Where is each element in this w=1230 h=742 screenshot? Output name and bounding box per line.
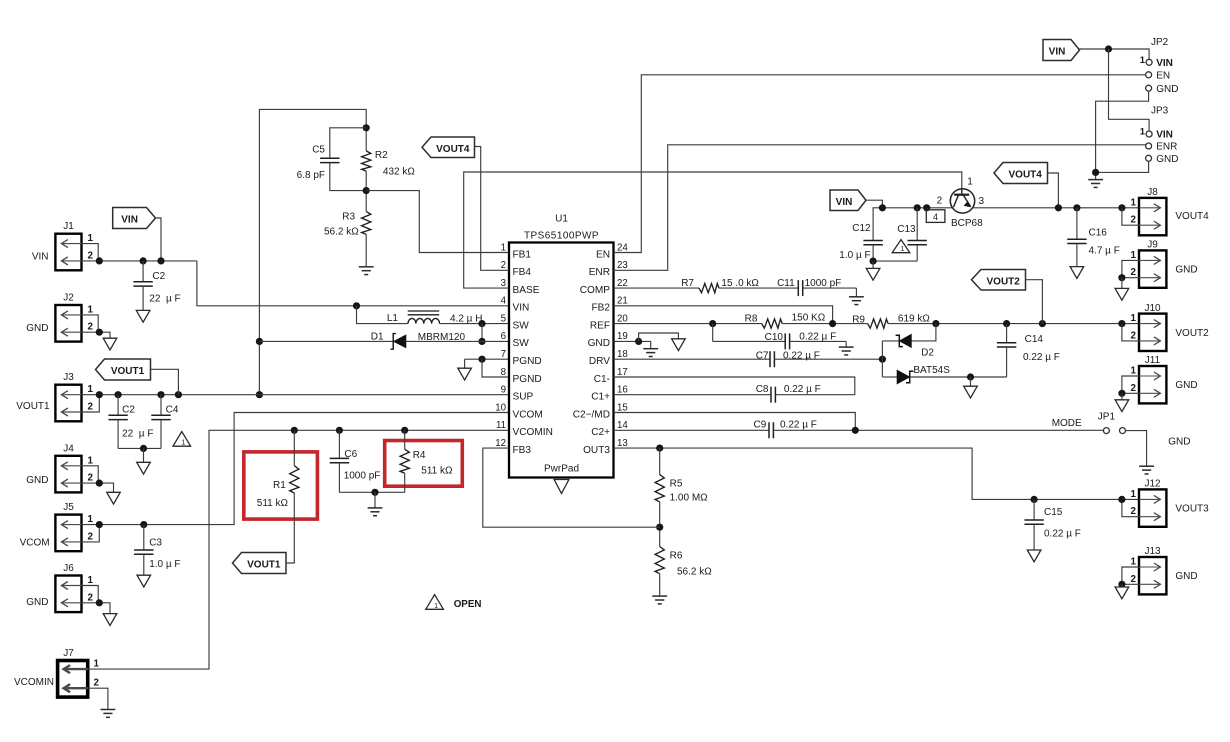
- svg-text:432 kΩ: 432 kΩ: [383, 166, 415, 177]
- svg-text:R3: R3: [342, 212, 355, 223]
- svg-text:VOUT4: VOUT4: [1175, 211, 1209, 222]
- svg-text:1: 1: [181, 440, 185, 447]
- wire C13 top lead: [916, 208, 918, 241]
- svg-text:16: 16: [617, 385, 628, 396]
- svg-text:PGND: PGND: [513, 356, 542, 367]
- junction J11 pins: [1118, 390, 1125, 397]
- wire J9 ground stub: [1121, 278, 1123, 289]
- junction C2 tap: [140, 257, 147, 264]
- junction R4 top: [401, 427, 408, 434]
- wire SUP line J3 to IC pin9: [82, 394, 510, 396]
- junction riser at D1: [256, 338, 263, 345]
- wire C2-/MD pin15: [614, 413, 856, 431]
- svg-text:VIN: VIN: [1049, 47, 1066, 58]
- svg-text:C4: C4: [166, 405, 179, 416]
- svg-text:56.2 kΩ: 56.2 kΩ: [324, 227, 359, 238]
- svg-text:C2+: C2+: [591, 427, 610, 438]
- net tag VOUT4 right: [994, 163, 1048, 184]
- ground D2 C14: [964, 386, 978, 398]
- svg-text:PGND: PGND: [513, 374, 542, 385]
- diode D2 lower: [897, 370, 909, 383]
- wire L1 to IC pin5: [440, 323, 510, 325]
- svg-text:C14: C14: [1025, 334, 1044, 345]
- junction C13 top: [914, 204, 921, 211]
- svg-text:EN: EN: [1156, 71, 1170, 82]
- svg-text:8: 8: [501, 367, 506, 378]
- svg-text:1000 pF: 1000 pF: [805, 278, 842, 289]
- svg-text:0.22 µ F: 0.22 µ F: [799, 332, 836, 343]
- svg-text:0.22 µ F: 0.22 µ F: [780, 420, 817, 431]
- wire C5 bottom to node: [330, 163, 366, 191]
- svg-text:1: 1: [967, 176, 973, 187]
- wire R5 top lead: [659, 448, 661, 475]
- svg-text:6.8 pF: 6.8 pF: [297, 170, 325, 181]
- svg-text:U1: U1: [555, 214, 568, 225]
- wire VIN tag to JP2 pin1: [1080, 49, 1150, 59]
- svg-text:23: 23: [617, 260, 628, 271]
- junction C3 tap: [140, 521, 147, 528]
- junction J9 pins: [1118, 274, 1125, 281]
- junction cap ground: [140, 445, 147, 452]
- svg-text:JP3: JP3: [1151, 106, 1169, 117]
- svg-text:J11: J11: [1145, 355, 1161, 366]
- junction GND pin19: [635, 338, 642, 345]
- wire VIN tag to C12 node: [866, 200, 882, 208]
- wire JP3 GND down: [1096, 161, 1149, 172]
- wire J11 pin1 bridge: [1122, 376, 1139, 393]
- net tag VIN at Q1: [830, 190, 866, 211]
- wire C11 to ground: [855, 288, 857, 297]
- junction R5 R6 FB3: [656, 524, 663, 531]
- transistor Q1 pin4 box: [926, 208, 928, 210]
- inductor L1 core bars: [408, 310, 440, 312]
- svg-text:7: 7: [501, 349, 506, 360]
- svg-text:1.00 MΩ: 1.00 MΩ: [670, 492, 709, 503]
- svg-text:2: 2: [94, 678, 100, 689]
- svg-text:D2: D2: [921, 347, 934, 358]
- svg-text:FB2: FB2: [591, 303, 610, 314]
- capacitor C12: [872, 240, 874, 242]
- svg-text:150 KΩ: 150 KΩ: [792, 313, 826, 324]
- wire FB3 pin12 to divider: [483, 448, 660, 527]
- warning triangle 1 near C4: [173, 432, 191, 447]
- svg-text:12: 12: [495, 438, 506, 449]
- svg-text:C8: C8: [756, 384, 769, 395]
- ground C11: [849, 296, 864, 298]
- wire J13 ground stub: [1121, 584, 1123, 587]
- ground C12 C13: [866, 268, 880, 280]
- wire J6 pin2 to ground: [82, 603, 111, 614]
- wire VCOM line to J5: [82, 413, 510, 525]
- svg-text:GND: GND: [1175, 265, 1197, 276]
- junction C12 ground: [870, 258, 877, 265]
- net tag VOUT1 top: [96, 359, 151, 380]
- svg-text:VOUT3: VOUT3: [1175, 504, 1209, 515]
- svg-text:R2: R2: [375, 150, 388, 161]
- transistor Q1 BCP68: [950, 189, 974, 213]
- svg-text:J12: J12: [1144, 479, 1161, 490]
- note OPEN triangle: [426, 595, 444, 610]
- svg-text:4: 4: [501, 296, 507, 307]
- svg-text:0.22 µ F: 0.22 µ F: [784, 384, 821, 395]
- wire D1 anode to IC pin6: [406, 340, 509, 342]
- junction C4 top: [157, 391, 164, 398]
- svg-text:J6: J6: [63, 563, 74, 574]
- red highlight box R1: [244, 452, 318, 519]
- wire J3 pin2 to pin1: [82, 395, 100, 412]
- wire J12 pin2 bridge: [1122, 499, 1139, 516]
- svg-text:1000 pF: 1000 pF: [344, 470, 381, 481]
- wire D2 common vertical: [881, 341, 883, 377]
- wire J11 ground stub: [1121, 393, 1123, 400]
- svg-text:0.22 µ F: 0.22 µ F: [1023, 352, 1060, 363]
- capacitor C6: [338, 430, 340, 458]
- ground C3: [137, 575, 151, 587]
- wire R2 to node: [365, 171, 367, 211]
- junction REF C10 tap: [709, 320, 716, 327]
- svg-text:1: 1: [1140, 55, 1146, 66]
- svg-text:C2: C2: [152, 271, 165, 282]
- ground J2: [103, 338, 117, 350]
- capacitor C9: [614, 429, 770, 431]
- wire C12 C13 bottoms: [873, 260, 917, 262]
- svg-text:2: 2: [501, 260, 506, 271]
- junction J10 pins: [1118, 320, 1125, 327]
- svg-text:C1-: C1-: [594, 374, 610, 385]
- resistor R2: [362, 151, 371, 171]
- svg-text:17: 17: [617, 367, 628, 378]
- wire D2 lower anode: [882, 376, 897, 378]
- svg-text:2: 2: [1131, 383, 1137, 394]
- svg-text:FB4: FB4: [513, 267, 532, 278]
- wire D1 cathode to riser: [259, 340, 393, 342]
- resistor R5: [655, 475, 664, 502]
- svg-text:56.2 kΩ: 56.2 kΩ: [677, 567, 712, 578]
- connector J3: [55, 385, 81, 422]
- svg-text:C12: C12: [852, 223, 871, 234]
- warning triangle 1 at C13: [892, 240, 910, 253]
- svg-text:GND: GND: [588, 338, 610, 349]
- wire J6 pin1 to pin2: [82, 586, 99, 603]
- wire R5 to R6: [659, 502, 661, 547]
- connector J8: [1139, 198, 1166, 235]
- connector J4: [55, 456, 81, 493]
- svg-text:J7: J7: [63, 648, 74, 659]
- capacitor C10: [713, 340, 786, 342]
- capacitor C8: [614, 394, 772, 396]
- junction JP grounds: [1092, 169, 1099, 176]
- svg-text:VIN: VIN: [1156, 58, 1173, 69]
- wire GND pin19: [614, 341, 651, 348]
- wire J4 pin1 to pin2: [82, 466, 99, 483]
- svg-text:VCOM: VCOM: [513, 409, 543, 420]
- resistor R9: [868, 319, 889, 328]
- wire VOUT4 tag stub: [1048, 173, 1059, 208]
- wire D2 ground stub: [970, 377, 972, 386]
- svg-text:1: 1: [88, 455, 94, 466]
- svg-text:ENR: ENR: [1156, 142, 1177, 153]
- svg-text:22: 22: [617, 278, 628, 289]
- IC U1 TPS65100PWP: [509, 243, 614, 478]
- svg-text:511 kΩ: 511 kΩ: [421, 466, 453, 477]
- ground R6: [652, 595, 667, 597]
- ground J11: [1115, 400, 1129, 412]
- resistor R3: [362, 211, 371, 234]
- junction SW pin5: [478, 320, 485, 327]
- svg-text:DRV: DRV: [589, 356, 610, 367]
- junction J12 pins: [1118, 496, 1125, 503]
- net tag VIN top right: [1043, 40, 1080, 61]
- svg-text:C7: C7: [756, 351, 769, 362]
- svg-text:2: 2: [1131, 574, 1137, 585]
- svg-text:VIN: VIN: [121, 215, 138, 226]
- wire D2 upper anode: [911, 324, 936, 341]
- svg-text:2: 2: [1131, 267, 1137, 278]
- connector J2: [55, 305, 81, 342]
- svg-text:1: 1: [88, 384, 94, 395]
- svg-text:C15: C15: [1044, 507, 1063, 518]
- svg-text:VOUT1: VOUT1: [111, 366, 145, 377]
- ground GND pin19 triangle: [672, 339, 686, 351]
- svg-text:GND: GND: [1156, 84, 1178, 95]
- diode D1 MBRM120: [394, 335, 406, 347]
- svg-text:C10: C10: [765, 332, 784, 343]
- svg-text:MODE: MODE: [1052, 418, 1082, 429]
- junction C6 ground tap: [371, 489, 378, 496]
- svg-text:18: 18: [617, 349, 628, 360]
- wire C2b C4 bottoms: [118, 447, 161, 449]
- svg-text:1: 1: [1131, 366, 1137, 377]
- svg-text:1: 1: [1131, 489, 1137, 500]
- wire C1- pin17: [614, 377, 855, 395]
- svg-text:J1: J1: [63, 221, 74, 232]
- capacitor C5: [329, 157, 331, 159]
- connector J5: [55, 515, 81, 552]
- svg-text:VCOMIN: VCOMIN: [14, 677, 54, 688]
- wire J1 pin1 to pin2: [82, 244, 99, 261]
- svg-text:BAT54S: BAT54S: [913, 365, 950, 376]
- wire VOUT1 vertical riser: [259, 109, 366, 394]
- junction J2 pins: [96, 329, 103, 336]
- wire VIN to IC pin4: [197, 261, 509, 306]
- svg-text:VCOMIN: VCOMIN: [513, 427, 553, 438]
- wire J8 pin2 bridge: [1122, 208, 1139, 225]
- svg-text:J2: J2: [63, 293, 74, 304]
- header JP2 pin VIN: [1146, 59, 1152, 65]
- svg-text:ENR: ENR: [589, 267, 610, 278]
- capacitor C15: [1033, 499, 1035, 520]
- wire OUT3 pin13 to J12: [614, 448, 1140, 499]
- ground U1 PwrPad: [554, 480, 569, 494]
- wire VOUT1 tag stub: [151, 369, 179, 394]
- svg-text:10: 10: [495, 402, 506, 413]
- svg-text:5: 5: [501, 313, 506, 324]
- net tag VOUT4 left: [422, 137, 475, 158]
- wire VIN tag stub: [156, 218, 162, 261]
- capacitor C16: [1076, 208, 1078, 239]
- svg-text:OPEN: OPEN: [454, 599, 482, 610]
- svg-text:VIN: VIN: [32, 251, 49, 262]
- ground PGND: [458, 368, 472, 380]
- svg-text:2: 2: [1131, 506, 1137, 517]
- svg-text:GND: GND: [26, 597, 48, 608]
- svg-text:VIN: VIN: [1156, 130, 1173, 141]
- svg-text:1: 1: [94, 659, 100, 670]
- capacitor C2 (VOUT1): [117, 395, 119, 416]
- svg-text:GND: GND: [1175, 571, 1197, 582]
- ground C15: [1027, 550, 1041, 562]
- svg-text:EN: EN: [596, 249, 610, 260]
- svg-text:22 µ F: 22 µ F: [122, 428, 153, 439]
- header JP2 pin GND: [1146, 85, 1152, 91]
- wire C6 bottom to R4 bottom: [339, 491, 404, 493]
- svg-text:C16: C16: [1089, 227, 1108, 238]
- svg-text:1: 1: [88, 575, 94, 586]
- svg-text:2: 2: [88, 250, 94, 261]
- svg-text:GND: GND: [1175, 380, 1197, 391]
- svg-text:1: 1: [434, 603, 438, 610]
- ground JP1: [1139, 465, 1154, 467]
- svg-text:TPS65100PWP: TPS65100PWP: [524, 231, 599, 242]
- svg-text:JP1: JP1: [1098, 412, 1116, 423]
- svg-text:MBRM120: MBRM120: [418, 332, 466, 343]
- svg-text:2: 2: [88, 322, 94, 333]
- junction VOUT1 tag tap: [175, 391, 182, 398]
- resistor R7: [699, 284, 719, 293]
- svg-text:C2: C2: [122, 405, 135, 416]
- svg-text:2: 2: [88, 531, 94, 542]
- wire ENR pin23 to JP3: [614, 145, 1146, 270]
- svg-text:0.22 µ F: 0.22 µ F: [783, 351, 820, 362]
- svg-text:JP2: JP2: [1151, 37, 1169, 48]
- header JP3 pin GND: [1146, 155, 1152, 161]
- wire VOUT2 tag stub: [1026, 280, 1043, 324]
- junction VIN branch: [1105, 45, 1112, 52]
- svg-text:COMP: COMP: [580, 285, 611, 296]
- wire R1 bottom to VOUT1 tag: [286, 493, 294, 563]
- svg-text:J5: J5: [63, 502, 74, 513]
- junction C9 MODE: [852, 427, 859, 434]
- jumper JP1 pin right: [1120, 428, 1126, 434]
- diode D2 upper: [900, 335, 912, 348]
- wire R1 top lead: [293, 430, 295, 465]
- svg-text:R8: R8: [745, 313, 758, 324]
- svg-text:J4: J4: [63, 443, 74, 454]
- svg-text:FB3: FB3: [513, 445, 532, 456]
- svg-text:4.7 µ F: 4.7 µ F: [1089, 246, 1120, 257]
- junction J3 pins: [96, 391, 103, 398]
- svg-text:13: 13: [617, 438, 628, 449]
- wire cap ground stub: [143, 448, 145, 462]
- net tag VIN at J1: [113, 208, 156, 229]
- wire JP1 to ground: [1126, 431, 1147, 467]
- svg-text:C6: C6: [344, 449, 357, 460]
- resistor R1: [290, 466, 299, 493]
- svg-text:1: 1: [1131, 250, 1137, 261]
- svg-text:2: 2: [1131, 215, 1137, 226]
- header JP2 pin EN: [1146, 72, 1152, 78]
- svg-text:J3: J3: [63, 372, 74, 383]
- ground JP2 JP3: [1088, 179, 1103, 181]
- svg-text:C2−/MD: C2−/MD: [573, 409, 610, 420]
- ground C2: [136, 310, 150, 322]
- junction C16 top: [1073, 204, 1080, 211]
- svg-text:4: 4: [933, 212, 938, 222]
- junction J8 pins: [1118, 204, 1125, 211]
- ground C10: [839, 346, 854, 348]
- wire D2 upper cathode: [882, 340, 899, 342]
- svg-text:GND: GND: [26, 475, 48, 486]
- junction VIN into rail: [879, 204, 886, 211]
- capacitor C14: [1006, 324, 1008, 343]
- connector J1: [55, 234, 81, 271]
- ground C16: [1070, 267, 1084, 279]
- svg-text:22 µ F: 22 µ F: [149, 293, 180, 304]
- svg-text:GND: GND: [26, 323, 48, 334]
- svg-text:24: 24: [617, 242, 628, 253]
- svg-text:PwrPad: PwrPad: [544, 464, 579, 475]
- svg-text:J10: J10: [1144, 303, 1161, 314]
- svg-text:C13: C13: [897, 224, 916, 235]
- inductor L1: [408, 318, 440, 323]
- wire VCOMIN line to J7: [88, 430, 509, 669]
- svg-text:11: 11: [496, 420, 506, 431]
- svg-text:1: 1: [88, 304, 94, 315]
- svg-text:GND: GND: [1156, 154, 1178, 165]
- svg-text:20: 20: [617, 313, 628, 324]
- wire REF pin20 to R8: [614, 323, 762, 325]
- wire C6 ground stub: [374, 492, 376, 508]
- capacitor C4: [160, 395, 162, 416]
- wire Q1 emitter to J8: [973, 207, 1139, 209]
- svg-text:2: 2: [88, 592, 94, 603]
- junction J4 pins: [96, 480, 103, 487]
- svg-text:2: 2: [88, 402, 94, 413]
- wire J2 pin1 to pin2: [82, 315, 99, 332]
- jumper JP1 pin left: [1103, 428, 1109, 434]
- junction R5 top: [656, 445, 663, 452]
- junction pin4 box tap: [923, 204, 930, 211]
- svg-text:C5: C5: [312, 144, 325, 155]
- svg-text:VOUT1: VOUT1: [16, 401, 50, 412]
- junction DRV D2: [879, 356, 886, 363]
- svg-text:VOUT2: VOUT2: [1175, 328, 1209, 339]
- svg-text:VOUT1: VOUT1: [247, 560, 281, 571]
- svg-text:1: 1: [1140, 127, 1146, 138]
- wire R9 to J10 VOUT2: [888, 323, 1139, 325]
- svg-text:L1: L1: [387, 313, 399, 324]
- svg-text:C9: C9: [754, 420, 767, 431]
- junction J5 pin1: [96, 521, 103, 528]
- wire VIN net J1 pin2 east: [82, 260, 197, 262]
- svg-text:C3: C3: [149, 538, 162, 549]
- svg-text:9: 9: [501, 385, 506, 396]
- wire COMP pin22 to R7: [614, 287, 700, 289]
- header JP3 pin VIN: [1146, 131, 1152, 137]
- junction C15 top: [1031, 496, 1038, 503]
- junction VOUT4 tag: [1055, 204, 1062, 211]
- svg-text:SW: SW: [513, 320, 530, 331]
- connector J11: [1139, 366, 1166, 403]
- junction J6 pins: [96, 599, 103, 606]
- svg-text:D1: D1: [371, 331, 384, 342]
- svg-text:21: 21: [617, 296, 628, 307]
- junction C14 top: [1003, 320, 1010, 327]
- svg-text:619 kΩ: 619 kΩ: [898, 313, 930, 324]
- capacitor C7: [614, 358, 771, 360]
- junction C6 top: [336, 427, 343, 434]
- svg-text:R4: R4: [413, 450, 426, 461]
